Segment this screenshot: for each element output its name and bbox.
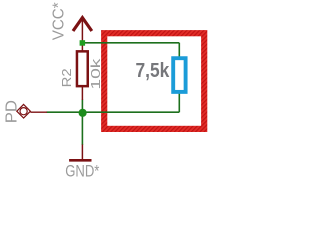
highlight box (red hatched selection rectangle) xyxy=(104,33,204,129)
svg-text:PD: PD xyxy=(3,100,20,123)
svg-text:GND*: GND* xyxy=(65,163,100,179)
wire VCC net (top horizontal from junction to R 7,5k) xyxy=(82,42,179,44)
supply symbol VCC (arrow) xyxy=(73,18,92,43)
svg-text:7,5k: 7,5k xyxy=(136,60,171,82)
svg-text:R2: R2 xyxy=(59,68,74,87)
wire PD net (main horizontal) xyxy=(47,111,180,113)
wire (bottom lead of 7,5k resistor down to PD net) xyxy=(178,94,180,113)
resistor 7,5k (blue highlighted) xyxy=(173,58,185,92)
pin PD (diamond port symbol) xyxy=(17,104,47,118)
wire (R2 bottom to junction) xyxy=(81,100,83,113)
node (green square joint at VCC) xyxy=(80,40,86,46)
junction (PD node dot) xyxy=(79,109,87,117)
ground symbol GND xyxy=(69,145,91,161)
svg-text:10k: 10k xyxy=(88,58,103,90)
resistor R2 xyxy=(77,46,88,101)
wire (junction down toward GND) xyxy=(81,112,83,145)
wire (top lead into 7,5k resistor) xyxy=(178,43,180,57)
svg-text:VCC*: VCC* xyxy=(50,2,67,40)
